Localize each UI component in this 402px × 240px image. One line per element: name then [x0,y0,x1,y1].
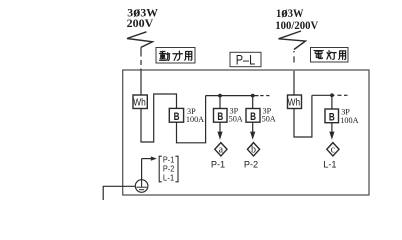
ground electrode symbol [135,180,148,193]
svg-text:100A: 100A [186,115,204,124]
label box P-L panel name [230,52,261,67]
kanji 用 [185,52,192,61]
svg-text:50A: 50A [229,115,243,124]
breaker B1 3P 100A [169,108,183,123]
label 3P 50A for B2 [229,107,243,124]
svg-text:B: B [217,111,223,123]
wire Wh1 output loop [141,94,177,142]
label 3P 100A for B4 [340,108,358,126]
wire Wh2 output loop [294,95,312,137]
label 3phi3W 200V source rating [127,4,159,30]
svg-text:b: b [251,145,256,156]
label 1phi3W 100/200V source rating [275,5,318,32]
feeder arrow from B3 [250,122,255,140]
bracket list P-1 P-2 L-1 [159,154,178,182]
kanji 動 [160,51,170,60]
svg-text:P–L: P–L [236,53,256,68]
kanji 用 [339,51,346,59]
wire drop to B4 [331,95,333,109]
wire drop to B2 [219,96,221,109]
bus continuation dashes (lighting) [338,94,348,96]
svg-text:c: c [331,145,336,156]
label 3P 100A for B1 [186,107,204,124]
watt-hour meter Wh (power) [133,95,147,109]
svg-text:L-1: L-1 [163,172,175,182]
breaker B4 3P 100A [325,109,339,124]
name L-1 [323,159,336,169]
feeder arrow from B2 [217,122,222,140]
svg-text:a: a [219,145,224,156]
label 3P 50A for B3 [262,107,276,124]
ground wire exiting panel [103,186,135,200]
label box 電灯用 (lighting use) [311,48,349,63]
kanji 電 [314,50,324,58]
incoming wire (power) dashed drop [140,47,142,95]
watt-hour meter Wh (lighting) [288,95,302,109]
incoming wire (lighting) dashed drop [293,51,295,95]
junction node dot 2 [251,94,255,98]
kanji 灯 [327,50,336,59]
svg-text:100/200V: 100/200V [275,18,318,32]
svg-text:200V: 200V [127,16,154,30]
svg-text:L-1: L-1 [323,159,336,169]
service entrance bolt (lighting) [279,31,306,50]
breaker B2 3P 50A [214,109,228,124]
ground riser wire with arrow to panel list [142,156,157,179]
svg-text:Wh: Wh [288,97,301,108]
name P-1 [211,159,225,169]
svg-text:B: B [174,111,180,123]
junction node dot 3 [330,93,334,97]
wire drop to B3 [252,96,254,109]
outlet diamond c [327,143,339,156]
panel enclosure outline [123,70,369,195]
service entrance bolt (power) [127,32,153,48]
svg-text:50A: 50A [262,115,276,124]
bus continuation dashes [260,95,269,97]
feeder arrow from B4 [329,123,334,140]
breaker B3 3P 50A [246,109,260,124]
svg-text:B: B [250,111,256,123]
name P-2 [244,159,258,169]
outlet diamond a [215,143,227,156]
bus wire (lighting branch) [312,94,335,96]
label box 動力用 (power use) [156,48,195,64]
wire B1 output riser to bus [177,96,206,143]
svg-text:Wh: Wh [133,97,146,108]
svg-text:B: B [329,112,335,124]
outlet diamond b [247,143,259,156]
bus wire (power branch) [206,95,259,97]
svg-text:P-1: P-1 [211,159,225,169]
kanji 力 [173,51,183,60]
junction node dot 1 [218,94,222,98]
svg-text:100A: 100A [340,116,358,125]
svg-text:P-2: P-2 [244,159,258,169]
